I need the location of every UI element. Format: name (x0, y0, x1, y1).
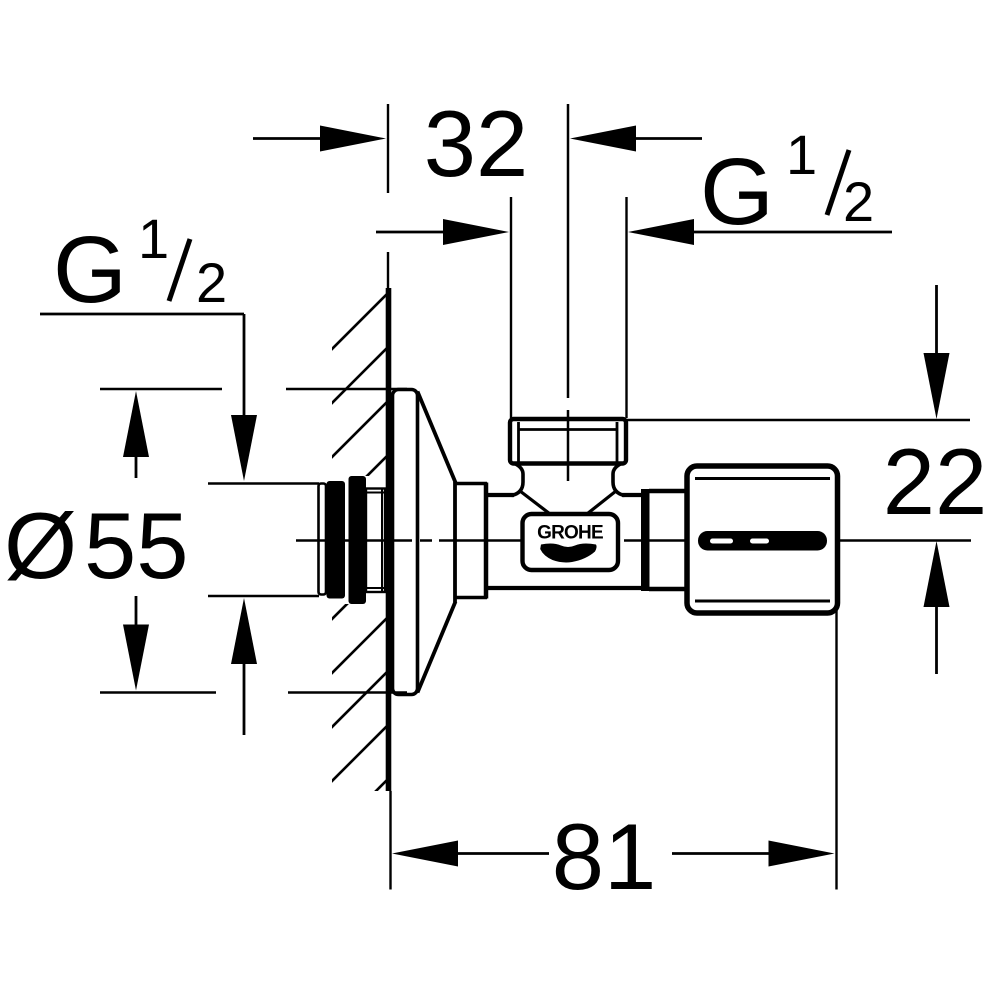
leader G1/2 left (40, 314, 257, 481)
label G1/2 left (53, 207, 227, 323)
centerline horizontal axis (296, 539, 971, 542)
dim 81 right arrow (672, 841, 835, 867)
label G1/2 top right (700, 123, 874, 245)
dim 32 line left with arrow (253, 126, 386, 152)
svg-text:GROHE: GROHE (537, 523, 603, 544)
thread black bar A (327, 481, 346, 599)
dim D55 extension lines (100, 389, 407, 693)
escutcheon flange plate (393, 390, 418, 695)
wall line (387, 252, 389, 291)
wall hatching (330, 293, 388, 837)
shank between thread and wall (366, 489, 385, 593)
escutcheon cone (418, 392, 456, 693)
outlet neck (512, 464, 625, 496)
svg-text:2: 2 (196, 251, 227, 314)
dim 22 extension line top (626, 419, 970, 422)
thread OD extension lines (208, 482, 319, 484)
svg-text:32: 32 (424, 91, 529, 196)
thread end bar (319, 484, 327, 595)
dim 32: extension line at wall (387, 104, 389, 193)
thread OD up arrow (231, 598, 257, 735)
top outlet nut G1/2 (510, 419, 626, 464)
funnel V lines (520, 491, 616, 516)
svg-text:22: 22 (883, 429, 988, 534)
svg-text:G: G (700, 139, 774, 245)
svg-text:2: 2 (843, 170, 874, 233)
escutcheon collar (455, 483, 487, 599)
body right end face (641, 489, 650, 591)
svg-text:Ø: Ø (4, 493, 77, 598)
dim 22 up arrow (924, 541, 950, 674)
svg-text:G: G (53, 217, 127, 323)
handle knob (687, 466, 838, 613)
dim D55 up arrow (123, 391, 149, 478)
GROHE swoosh (540, 543, 596, 562)
dim 81 left arrow (392, 841, 549, 867)
thread black bar B (349, 476, 367, 604)
left inlet thread G1/2 (317, 476, 387, 604)
dim 32 line right with arrow (570, 126, 702, 152)
stem to handle (649, 491, 688, 589)
svg-text:1: 1 (786, 123, 817, 186)
dim 81 extension lines (389, 791, 391, 890)
vertical centerline of outlet (567, 104, 570, 481)
svg-text:1: 1 (138, 207, 169, 270)
valve body pipe (487, 495, 642, 588)
dim G1/2 top line left arrow (376, 219, 509, 245)
svg-text:55: 55 (84, 493, 189, 598)
dim 22 down arrow (924, 285, 950, 419)
handle grip slot (698, 531, 827, 551)
dim G1/2 top line right arrow (628, 219, 892, 245)
dim D55 down arrow (123, 596, 149, 691)
dim G1/2 top: extension lines (510, 197, 512, 418)
GROHE logo box (523, 514, 619, 570)
svg-text:81: 81 (552, 804, 657, 909)
